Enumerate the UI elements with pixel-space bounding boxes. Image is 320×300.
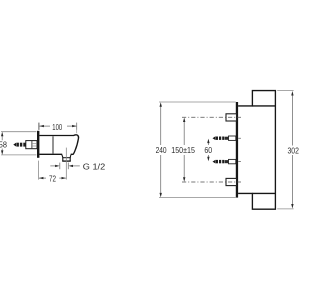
svg-text:100: 100	[52, 122, 62, 132]
body top edge and right hook	[39, 135, 78, 154]
body bottom edge left of outlet	[39, 153, 62, 155]
inlet nipple cylinder	[26, 141, 37, 149]
upper inlet nipple	[213, 136, 236, 140]
upper fitting rect	[226, 114, 237, 121]
dim G1/2 tick left	[59, 163, 61, 170]
dim 72 arrow right	[62, 177, 67, 179]
body outline with top and bottom boxes	[238, 91, 275, 210]
dim G1/2 left line with arrow	[50, 165, 55, 167]
upper dash-dot centerline	[182, 116, 241, 118]
top box bottom line	[252, 105, 275, 107]
dim 100 tick right	[76, 123, 78, 130]
dim 58 arrow up	[1, 132, 3, 137]
dim 240 extension top	[159, 101, 236, 103]
bottom box top line	[252, 192, 275, 194]
upper nipple stub right of plate	[238, 137, 241, 139]
dim 60 arrow down	[207, 157, 209, 162]
dim 150±15 arrow up	[183, 118, 185, 123]
dim 60 arrow up	[207, 139, 209, 144]
dim 302 extension bottom	[277, 208, 293, 210]
dim 150±15 line	[183, 120, 185, 145]
wall plate (edge view)	[236, 102, 238, 198]
body interior vertical line	[52, 136, 54, 153]
lower fitting rect	[226, 178, 237, 185]
dim 58 extension top	[1, 131, 36, 133]
dim 60 line	[207, 141, 209, 146]
wall flange plate (side view)	[37, 131, 39, 158]
dim 150±15 arrow down	[183, 177, 185, 182]
dim 302 arrow up	[291, 91, 293, 96]
dim 58 line	[1, 135, 3, 141]
dim 58 arrow down	[1, 150, 3, 155]
dim 72 line	[39, 177, 46, 179]
outlet centerline	[65, 148, 67, 180]
body bottom edge right of outlet	[71, 153, 74, 155]
dim 302 line	[291, 94, 293, 146]
dim G1/2 right line with arrow	[73, 165, 80, 167]
dim 100 arrow right	[72, 125, 77, 127]
outlet collar trapezoid	[62, 155, 71, 158]
dim 240 arrow down	[160, 193, 162, 198]
dim 302 arrow down	[291, 204, 293, 209]
svg-text:G 1/2: G 1/2	[83, 161, 106, 171]
svg-text:240: 240	[156, 145, 167, 155]
inlet nipple thread blocks	[17, 143, 19, 147]
dim 100 arrow left	[39, 125, 44, 127]
svg-text:60: 60	[204, 145, 212, 155]
dim 100 line	[39, 125, 50, 127]
svg-text:72: 72	[49, 174, 56, 184]
svg-text:150±15: 150±15	[171, 145, 195, 155]
dim 72 arrow left	[39, 177, 44, 179]
lower inlet nipple	[213, 159, 236, 163]
dim 58 extension bottom	[1, 154, 36, 156]
svg-text:58: 58	[0, 139, 7, 149]
inlet nipple cone tip	[13, 143, 16, 147]
lower nipple stub right of plate	[238, 161, 241, 163]
dim 240 arrow up	[160, 102, 162, 107]
svg-text:302: 302	[288, 146, 300, 156]
dim 302 extension top	[277, 90, 293, 92]
lower dash-dot centerline	[182, 181, 241, 183]
dim 240 line	[160, 105, 162, 145]
dim G1/2 tick right	[67, 163, 69, 170]
dim 100 tick left	[38, 123, 40, 130]
dim 72 extension left	[38, 161, 40, 180]
nipple cylinder inner step line	[31, 141, 33, 148]
dim 240 extension bottom	[159, 197, 236, 199]
outlet nut	[63, 158, 70, 161]
nipple inner bore lines	[33, 143, 37, 145]
dim 100 tick right lower extension	[76, 130, 78, 133]
